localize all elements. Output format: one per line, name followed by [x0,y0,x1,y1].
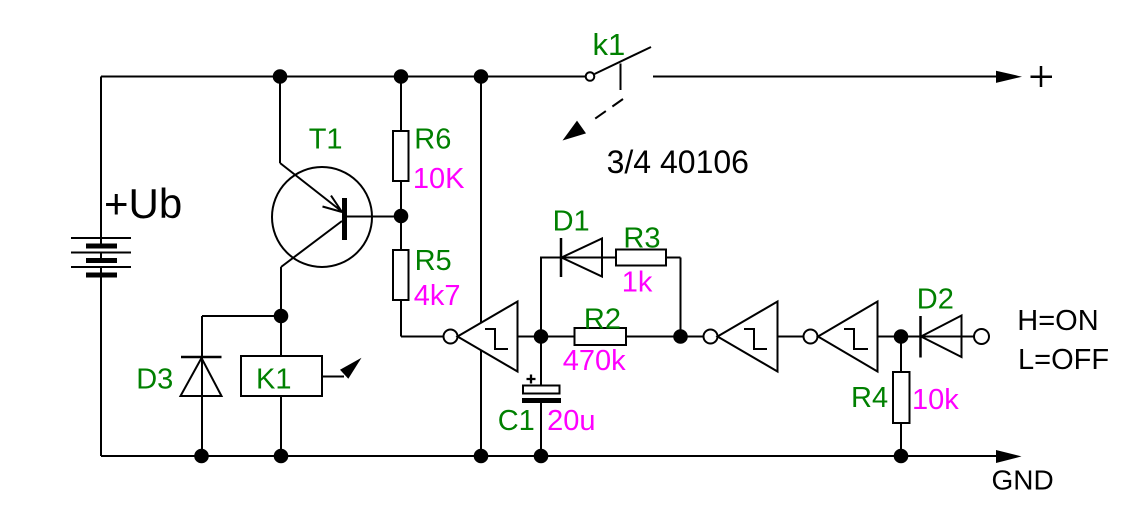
svg-text:R3: R3 [623,222,660,254]
svg-text:D3: D3 [136,363,173,395]
svg-text:R5: R5 [415,245,452,277]
svg-text:C1: C1 [498,405,535,437]
svg-text:D2: D2 [917,284,954,316]
svg-text:1k: 1k [622,267,653,299]
svg-text:R4: R4 [851,382,888,414]
svg-text:10K: 10K [413,163,465,195]
svg-text:T1: T1 [309,124,343,156]
svg-text:k1: k1 [593,27,626,62]
svg-text:R6: R6 [414,124,451,156]
svg-text:D1: D1 [553,206,590,238]
svg-text:470k: 470k [563,345,626,377]
svg-text:H=ON: H=ON [1017,305,1098,337]
svg-text:GND: GND [992,464,1054,495]
svg-text:K1: K1 [256,363,291,395]
svg-text:+Ub: +Ub [104,180,182,227]
svg-text:R2: R2 [584,304,621,336]
svg-text:3/4 40106: 3/4 40106 [607,144,749,180]
svg-text:10k: 10k [912,384,959,416]
svg-text:L=OFF: L=OFF [1018,344,1109,376]
svg-text:4k7: 4k7 [414,280,461,312]
svg-text:20u: 20u [547,405,595,437]
